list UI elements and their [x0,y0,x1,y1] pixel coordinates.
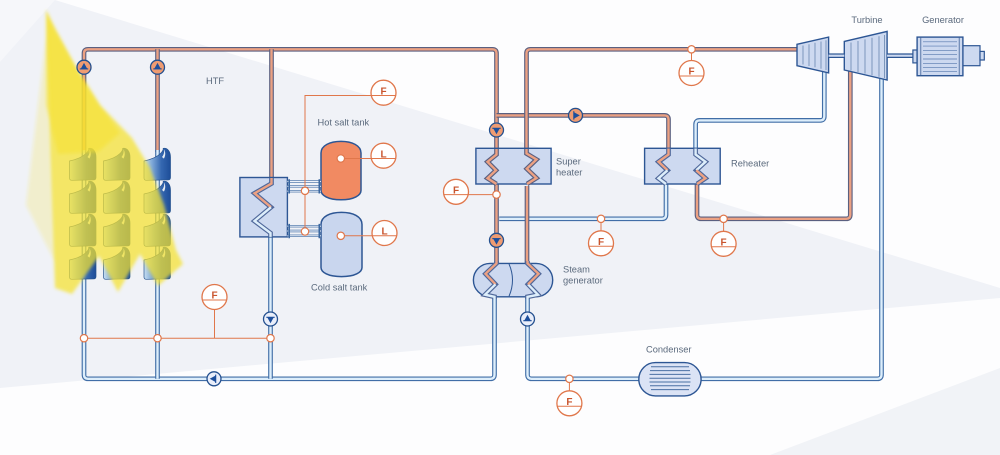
pump P2 [151,60,165,74]
svg-text:F: F [721,237,727,248]
steam generator HTF zigzag [485,261,497,299]
svg-text:Steam: Steam [563,265,590,275]
instrument F5 condensate [557,383,582,416]
wire: cold HTF return from reheater [499,183,666,219]
heat exchanger U4 body [240,178,288,237]
condenser [639,363,701,396]
wire: HTF branch to reheater [497,115,669,150]
instrument F3 hot reheat [711,223,736,256]
HP turbine [797,37,829,73]
svg-text:L: L [380,149,386,160]
wire: cold riser 2 [155,150,160,379]
wire: hot reheat to LP turbine [697,71,850,219]
pump P4 on bottom header [207,372,221,386]
wire: top HTF header with riser 1 corner and right drop [84,49,497,152]
instrument F4 main steam [679,53,704,85]
node: main steam F tap ring [688,46,695,53]
svg-text:Turbine: Turbine [851,15,882,25]
node: HTF return F tap ring [597,215,604,222]
pump P8 feedwater [521,312,535,326]
svg-text:Generator: Generator [922,15,964,25]
node: superheater F tap ring [493,191,500,198]
svg-text:F: F [380,86,386,97]
solar collector column 2 [104,148,131,279]
wire: heat exchanger feed drop [269,49,274,180]
wire: heat exchanger outlet [268,234,273,379]
pump P5 on HTF drop [490,123,504,137]
steam generator water zigzag [528,261,539,299]
node: riser 2 tap ring [154,335,161,342]
instrument F7 storage [371,80,396,105]
background white corner top-left [0,0,55,62]
turbine shaft 1 [829,53,845,58]
instrument F2 HTF return [589,223,614,256]
svg-text:Reheater: Reheater [731,158,769,168]
superheater U1 body [476,148,551,184]
node: hot reheat F tap ring [720,215,727,222]
instrument L1 hot tank level [371,143,396,168]
svg-text:Hot salt tank: Hot salt tank [318,118,370,128]
svg-text:F: F [211,291,217,302]
svg-text:Super: Super [556,157,581,167]
cold tank port [337,232,372,239]
instrument F1 superheater inlet [444,179,493,204]
instrument line: collector field F sense line [84,310,271,339]
wire: steam riser steam generator to superheater [525,186,530,265]
tank connection stubs top group [287,179,321,193]
wire: condensate from condenser to feed pump [528,295,639,379]
steam generator U3 shell line [509,264,513,296]
node: HX outlet tap ring [267,335,274,342]
superheater steam zigzag [527,149,537,184]
svg-text:F: F [566,397,572,408]
wire: HTF drop superheater to steam generator [494,183,499,265]
solar collector column 3 [144,148,171,279]
svg-text:F: F [688,67,694,78]
tank connection stubs bottom group [287,224,321,238]
instrument F6 collector field [202,285,227,310]
wire: main steam line to turbine [527,49,798,152]
node: condensate F tap ring [566,375,573,382]
wire: cold riser 1 + bottom header [84,150,495,379]
node: stub tap ring top [301,187,308,194]
heat exchanger zigzag [255,178,272,237]
pump P3 on heat exchanger outlet [264,312,278,326]
svg-text:F: F [598,237,604,248]
generator G1 [913,37,984,76]
svg-text:F: F [453,185,459,196]
steam generator U3 body [473,263,552,296]
LP turbine [844,31,887,80]
instrument line: storage F sense line [305,96,372,232]
wire: riser 2 hot top [155,49,160,152]
pump P6 on HTF to steam generator [490,233,504,247]
background gray bottom-right [770,368,1000,455]
hot salt tank T1 [321,141,361,199]
reheater U2 body [645,148,721,184]
instrument L2 cold tank level [372,221,397,246]
solar collector column 1 [70,148,97,279]
svg-text:HTF: HTF [206,76,224,86]
wire: HP turbine exhaust to reheater [696,71,825,150]
cold salt tank T2 [321,212,362,276]
sun beam [26,10,183,294]
reheater HTF zigzag [659,149,669,185]
turbine shaft 2 [887,53,913,58]
svg-text:L: L [381,227,387,238]
node: riser 1 tap ring [80,335,87,342]
svg-text:heater: heater [556,168,582,178]
node: stub tap ring bottom [301,228,308,235]
hot tank port [337,155,371,162]
wire: LP turbine exhaust to condenser [700,78,882,379]
pump P7 on reheater branch [569,108,583,122]
svg-text:Condenser: Condenser [646,344,691,354]
reheater steam zigzag [696,149,706,185]
svg-text:Cold salt tank: Cold salt tank [311,283,368,293]
svg-text:generator: generator [563,276,603,286]
pump P1 [77,60,91,74]
superheater HTF zigzag [488,149,497,184]
